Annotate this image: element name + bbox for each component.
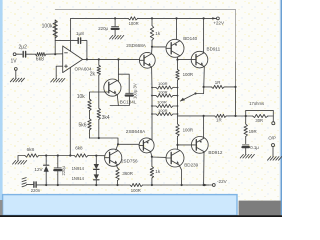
capacitor C 220u decouple <box>114 18 116 26</box>
wire 2SB648A emitter node <box>151 152 152 157</box>
wire BC184L collector <box>117 59 119 81</box>
wire bias chain <box>18 156 25 161</box>
svg-text:3k4: 3k4 <box>102 115 110 121</box>
capacitor C 0.1u zobel <box>245 137 247 144</box>
node rail 1k <box>151 17 153 19</box>
resistor R 19R zobel <box>245 116 247 124</box>
wire lower bus to BD912 base <box>177 136 179 149</box>
wire opamp plus input to ground <box>56 66 63 78</box>
bottom-left gray sliver <box>0 200 3 216</box>
terminal +22V <box>217 17 220 20</box>
node output junction <box>234 115 236 117</box>
transistor Q3 BD911 <box>191 51 208 68</box>
scan paper background <box>0 0 282 217</box>
svg-text:1R: 1R <box>215 80 221 85</box>
resistor R 10k <box>88 99 91 111</box>
transistor Q5 2SB648A <box>139 138 154 153</box>
svg-text:12V: 12V <box>34 167 43 172</box>
wire 2SB648A base <box>118 143 139 145</box>
node BD912 base tap <box>176 144 178 146</box>
svg-text:2SD668A: 2SD668A <box>126 43 147 48</box>
ground decouple <box>110 35 113 39</box>
wire source to ground <box>15 70 17 78</box>
wire to 1R upper <box>204 86 212 88</box>
svg-text:19R: 19R <box>249 129 257 134</box>
resistor R 2k <box>98 59 100 65</box>
svg-text:0.1μ: 0.1μ <box>250 145 259 150</box>
wire to opamp minus input <box>46 53 63 55</box>
resistor R 100R supply <box>128 17 137 20</box>
arrow neg supply <box>204 184 208 186</box>
svg-text:2μ2: 2μ2 <box>19 45 28 51</box>
svg-text:-22V: -22V <box>217 179 228 184</box>
terminal OP gnd <box>272 144 275 147</box>
svg-text:1R: 1R <box>216 118 222 123</box>
svg-text:2k: 2k <box>90 72 96 78</box>
wire BC184L base network <box>90 92 105 99</box>
svg-text:1k: 1k <box>155 31 161 36</box>
svg-text:2SB648A: 2SB648A <box>126 129 146 134</box>
svg-text:100R: 100R <box>157 100 167 105</box>
svg-text:220n: 220n <box>31 188 41 193</box>
wire Q1 collector to node <box>151 47 153 54</box>
wire opamp output <box>83 58 140 60</box>
wire positive rail <box>71 17 129 19</box>
svg-text:10k: 10k <box>77 94 86 100</box>
svg-text:BD239: BD239 <box>184 163 198 168</box>
svg-text:220μ: 220μ <box>98 26 108 31</box>
node rail BD140 <box>175 17 177 19</box>
wire chain to 2SD756 base <box>88 155 105 157</box>
svg-text:100k: 100k <box>42 24 53 30</box>
node BD911 emitter 1R tap <box>203 86 205 88</box>
wire negative rail <box>37 184 130 186</box>
wire chain <box>39 155 74 157</box>
node 2k tap <box>98 58 100 60</box>
resistor R 100R lower <box>176 124 179 136</box>
wire feedback cap right to output <box>82 41 87 60</box>
resistor R 360R <box>116 168 119 181</box>
bottom-right gray bar <box>239 201 281 216</box>
wire OP gnd <box>272 147 274 157</box>
svg-text:100R: 100R <box>183 128 194 133</box>
wire BD911 collector to rail <box>203 18 205 52</box>
node input junction <box>54 53 56 55</box>
svg-text:5k6: 5k6 <box>78 123 86 129</box>
resistor R 3k4 <box>97 108 100 119</box>
capacitor C 220n <box>33 182 35 187</box>
wire top feedback rail <box>55 9 235 62</box>
svg-text:100R: 100R <box>183 72 194 77</box>
svg-text:6k8: 6k8 <box>75 146 83 151</box>
svg-text:O/P: O/P <box>268 136 276 141</box>
wire to BD239 base <box>152 156 166 158</box>
wire opamp V+ pin <box>70 18 72 51</box>
wire opamp V- pin down to bias node <box>69 68 71 156</box>
op-amp U1 OPA604 <box>63 46 83 73</box>
svg-text:1N914: 1N914 <box>72 176 85 181</box>
ground chassis bottom-left <box>22 178 26 179</box>
wire negative rail right <box>143 184 209 186</box>
svg-text:1μ8: 1μ8 <box>76 31 84 36</box>
wire Q1 collector node to BD140 base <box>152 46 166 48</box>
wire positive rail right <box>138 17 204 19</box>
capacitor C-in 2u2 <box>22 52 24 58</box>
transistor Q2 BD140 <box>166 39 184 57</box>
svg-text:1V: 1V <box>11 59 18 65</box>
bottom blue panel <box>3 195 237 216</box>
wire cap top to collector <box>118 74 129 93</box>
svg-text:BD912: BD912 <box>208 150 222 155</box>
wire BD140 emitter to rail <box>176 18 178 39</box>
svg-text:100R: 100R <box>129 21 139 26</box>
svg-text:100R: 100R <box>158 108 168 113</box>
resistor R 1R lower <box>215 114 227 117</box>
wire 2SD756 emitter <box>116 165 117 168</box>
svg-text:BD140: BD140 <box>183 36 197 41</box>
wire load loop top <box>246 110 274 121</box>
svg-text:100μ 3V: 100μ 3V <box>133 83 138 99</box>
svg-text:220μ: 220μ <box>61 166 66 176</box>
resistor R 30R <box>253 114 268 117</box>
transistor Q7 BD239 <box>166 149 184 167</box>
transistor Q6 2SD756 <box>105 149 122 166</box>
svg-text:6k8: 6k8 <box>36 57 44 63</box>
resistor R-in 6k8 <box>35 53 46 56</box>
resistor R-feedback 100k <box>54 20 56 54</box>
svg-text:30R: 30R <box>255 118 263 123</box>
transistor Q4 BD912 <box>191 137 208 154</box>
capacitor C 220u bias <box>57 156 59 168</box>
ground output <box>268 157 271 161</box>
transistor Q1 2SD668A <box>139 52 155 68</box>
svg-text:6k8: 6k8 <box>27 147 35 152</box>
node BC184L collector tap <box>117 58 119 60</box>
node feedback-output <box>86 58 88 60</box>
divider ladder resistors 100R x4 <box>156 86 173 89</box>
node BD911 base tap <box>176 59 178 61</box>
svg-text:1N914: 1N914 <box>72 166 85 171</box>
resistor R 1k bottom <box>151 157 153 167</box>
resistor R 6k8 a <box>25 154 39 157</box>
node switch pivot <box>194 92 196 94</box>
wire cap to resistor <box>26 53 36 55</box>
ground bias chain left <box>13 161 16 165</box>
wire 2SD756 collector to base node <box>116 144 118 150</box>
wire BD239 emitter to rail <box>180 166 182 185</box>
zener D 12V <box>45 156 47 166</box>
svg-text:2SD756: 2SD756 <box>121 159 138 164</box>
wire BD912 collector down to neg rail <box>203 152 205 185</box>
node zobel <box>245 115 247 117</box>
wire BD911 emitter <box>203 67 206 94</box>
resistor R 100R upper <box>177 60 179 70</box>
node Q1 collector <box>151 46 153 48</box>
resistor R 1k top <box>151 18 153 25</box>
node output rail upper <box>234 86 236 88</box>
wire BD140 collector <box>177 57 179 60</box>
wire divider left bus <box>151 88 153 141</box>
wire lower output row <box>178 115 204 117</box>
ground input source <box>10 78 13 82</box>
capacitor C 100u 3V <box>126 92 133 94</box>
wire Q1 emitter to divider bus <box>151 67 153 88</box>
svg-text:100R: 100R <box>158 89 168 94</box>
resistor R 100R rail <box>130 183 143 186</box>
wire to BD911 base <box>178 59 192 61</box>
right faint page edge <box>280 0 281 215</box>
wire BD912 emitter up <box>203 116 205 138</box>
bottom black edge <box>0 215 282 217</box>
svg-text:1k: 1k <box>155 169 161 174</box>
left blue edge strip <box>0 0 3 201</box>
wire bottom left <box>26 184 33 186</box>
svg-text:17ohms: 17ohms <box>249 101 264 106</box>
svg-text:+22V: +22V <box>213 21 225 26</box>
capacitor C-fb 1u8 <box>77 38 79 44</box>
node 2SB648A base <box>117 143 119 145</box>
terminal -22V <box>212 184 215 187</box>
diode D2 1N914 <box>95 170 97 175</box>
source terminal <box>14 68 17 71</box>
wire to 30R <box>246 115 253 117</box>
node rail BD911 <box>203 17 205 19</box>
transistor Q BC184L <box>104 79 121 96</box>
resistor R 6k8 b <box>74 154 88 157</box>
diode D1 1N914 <box>95 156 97 164</box>
ground opamp plus input <box>51 78 54 82</box>
arrow pos supply <box>212 17 216 19</box>
wire BC184L emitter <box>110 95 118 106</box>
wire divider right bus upper <box>177 80 179 124</box>
wire switch to BD911 emitter leg <box>196 93 204 95</box>
node 220u decouple <box>114 17 116 19</box>
resistor R 5k6 <box>88 119 91 130</box>
svg-text:100R: 100R <box>158 81 168 86</box>
ground zobel <box>240 154 243 158</box>
wire input <box>16 53 22 55</box>
terminal OP hot <box>272 122 275 125</box>
wire output to load network <box>236 115 246 117</box>
input terminal <box>13 53 16 56</box>
resistor R 1R upper <box>212 85 225 88</box>
wire feedback cap left <box>55 40 77 42</box>
wire bias bottom join <box>90 138 119 144</box>
svg-text:BD911: BD911 <box>207 47 221 52</box>
switch wiper arrow <box>181 94 196 102</box>
svg-text:360R: 360R <box>122 171 132 176</box>
svg-text:BC184L: BC184L <box>120 100 137 105</box>
svg-text:100R: 100R <box>131 188 141 193</box>
